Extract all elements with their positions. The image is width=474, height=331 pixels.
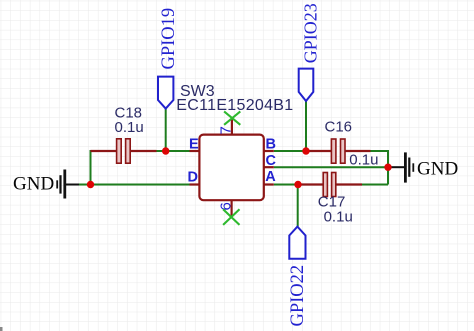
wire pin B to C16 [274,150,313,152]
svg-text:GPIO19: GPIO19 [159,8,179,70]
svg-text:0.1u: 0.1u [115,119,144,136]
junction node B [302,147,309,154]
svg-text:0.1u: 0.1u [349,152,378,169]
wire GND-left to pin D [77,184,190,186]
pin 7 top [217,118,234,135]
svg-text:0.1u: 0.1u [324,208,353,225]
wire A-node to GPIO22 [297,185,299,227]
pin A [264,169,277,185]
junction node A [294,181,301,188]
wire pin A to C17 [274,184,304,186]
svg-text:GND: GND [13,174,54,195]
pin 6 bottom [217,200,234,217]
net port GPIO23 [299,3,321,101]
net port GPIO19 [158,8,179,109]
svg-text:C: C [266,153,277,169]
capacitor C18 [91,104,157,163]
wire pin C to GND-node [274,166,388,168]
wire GPIO23 to B-node [305,102,307,152]
svg-text:GPIO22: GPIO22 [288,265,308,327]
no-connect X top [224,111,240,124]
svg-text:B: B [266,136,276,152]
svg-text:E: E [189,137,199,153]
svg-text:A: A [265,169,276,185]
no-connect X bottom [223,209,239,225]
junction node GND-left [87,181,94,188]
wire C17 right to corner [361,184,388,186]
svg-text:C16: C16 [325,119,353,136]
ground GND right [389,152,458,182]
svg-text:7: 7 [217,126,234,134]
wire GPIO19 to E-node [165,109,167,151]
wire C16 right to corner [370,150,389,152]
svg-text:GPIO23: GPIO23 [301,3,321,63]
svg-text:6: 6 [217,202,234,210]
junction node E [162,147,169,154]
wire right vertical to GND-node [387,150,389,185]
corner artifact [0,327,3,331]
pin C [264,153,277,169]
capacitor C17 [298,173,362,226]
svg-text:EC11E15204B1: EC11E15204B1 [176,97,293,114]
switch SW3 body [199,135,263,201]
pin B [264,136,276,152]
pin D [188,170,200,186]
svg-text:D: D [188,170,198,186]
junction node GND-right [384,164,391,171]
wire E-node to pin E [156,150,190,152]
wire C18 left vertical [90,150,92,185]
capacitor C16 [307,119,379,169]
svg-text:GND: GND [417,158,458,179]
wire [77,102,388,227]
pin E [189,137,199,153]
net port GPIO22 [288,227,308,327]
ground GND left [13,170,79,199]
